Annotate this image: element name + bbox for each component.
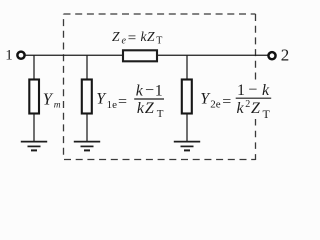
svg-text:1: 1 <box>237 82 245 99</box>
terminal 1 <box>17 52 24 59</box>
resistor Y1e (shunt box) <box>82 80 92 114</box>
svg-text:k: k <box>262 82 270 99</box>
svg-text:k: k <box>137 100 145 117</box>
svg-text:2: 2 <box>281 45 290 64</box>
wire: junction to Ym <box>33 55 35 79</box>
svg-text:1: 1 <box>5 48 13 64</box>
svg-text:−: − <box>145 82 154 99</box>
svg-text:T: T <box>157 108 164 120</box>
svg-text:k: k <box>237 100 245 117</box>
ground (under Y2e) <box>174 142 200 151</box>
svg-text:2: 2 <box>245 99 250 110</box>
wire: Y2e to ground <box>186 114 188 142</box>
terminal 2 <box>268 52 275 59</box>
svg-text:Z: Z <box>145 100 155 117</box>
wire: junction to Y1e <box>86 55 88 79</box>
svg-text:=: = <box>118 93 127 110</box>
svg-text:T: T <box>156 36 162 47</box>
svg-text:=: = <box>128 30 136 46</box>
svg-text:=: = <box>222 93 231 110</box>
label Ze = kZT <box>112 29 162 47</box>
svg-text:T: T <box>263 107 271 121</box>
svg-text:Z: Z <box>251 100 261 117</box>
svg-text:1: 1 <box>155 83 163 100</box>
ground (under Ym) <box>21 142 47 151</box>
wire: Ym to ground <box>33 114 35 142</box>
svg-text:m: m <box>54 101 61 111</box>
wire: Y1e to ground <box>86 114 88 142</box>
svg-text:−: − <box>248 82 257 99</box>
svg-text:Z: Z <box>112 29 120 44</box>
wire: series resistor to terminal 2 <box>158 54 269 56</box>
wire: terminal 1 to series resistor <box>26 54 123 56</box>
svg-text:1e: 1e <box>107 99 118 111</box>
resistor Ym (shunt box) <box>29 80 39 114</box>
svg-text:e: e <box>122 36 127 47</box>
resistor Y2e (shunt box) <box>182 80 192 114</box>
ground (under Y1e) <box>74 142 100 151</box>
svg-text:2e: 2e <box>210 99 221 111</box>
label Y2e = (1-k)/(k2ZT) <box>200 82 271 121</box>
resistor Ze (series box) <box>123 50 157 61</box>
svg-text:Z: Z <box>147 29 155 44</box>
wire: junction to Y2e <box>186 55 188 79</box>
dashed boundary box <box>64 14 256 160</box>
label Ym <box>43 89 61 110</box>
label Y1e = (k-1)/(kZT) <box>96 82 164 120</box>
svg-text:k: k <box>136 83 144 100</box>
